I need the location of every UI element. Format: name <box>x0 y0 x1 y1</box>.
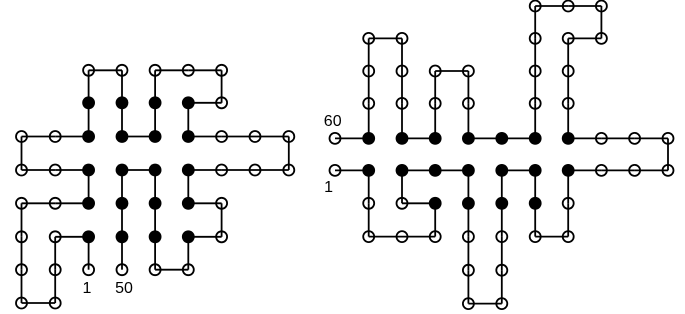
wire R44-R45 <box>502 137 535 139</box>
node L27 P (open) <box>216 65 227 76</box>
node L13 P (open) <box>50 165 61 176</box>
wire R48-R49 <box>435 70 468 72</box>
node R20 H (filled) <box>495 164 508 177</box>
wire L29-L30 <box>187 103 189 137</box>
node L33 P (open) <box>283 131 294 142</box>
wire R14-R15 <box>467 270 469 303</box>
wire L33-L34 <box>288 137 290 171</box>
node L31 P (open) <box>216 131 227 142</box>
wire R20-R21 <box>502 169 535 171</box>
wire L43-L44 <box>154 237 156 270</box>
node L2 H (filled) <box>82 230 95 243</box>
node R29 P (open) <box>663 165 674 176</box>
node R59 H (filled) <box>362 132 375 145</box>
node R3 P (open) <box>363 198 374 209</box>
node L26 P (open) <box>183 65 194 76</box>
wire L49-L50 <box>121 237 123 270</box>
wire L12-L13 <box>55 169 88 171</box>
wire R47-R48 <box>467 71 469 103</box>
wire L22-L23 <box>122 136 155 138</box>
node L29 H (filled) <box>182 96 195 109</box>
node L34 P (open) <box>283 165 294 176</box>
wire L24-L25 <box>154 70 156 103</box>
node L15 P (open) <box>16 131 27 142</box>
wire L36-L37 <box>188 169 221 171</box>
wire R50-R51 <box>434 103 436 138</box>
wire R4-R5 <box>369 236 402 238</box>
node L12 H (filled) <box>82 164 95 177</box>
node R18 P (open) <box>496 231 507 242</box>
wire R29-R30 <box>667 138 669 170</box>
wire L14-L15 <box>21 137 23 171</box>
node R14 P (open) <box>463 265 474 276</box>
wire R39-R40 <box>535 5 568 7</box>
node R36 P (open) <box>563 33 574 44</box>
node L19 P (open) <box>83 65 94 76</box>
node L20 P (open) <box>117 65 128 76</box>
wire L21-L22 <box>121 103 123 137</box>
wire R46-R47 <box>467 103 469 138</box>
node R51 H (filled) <box>429 132 442 145</box>
node R33 H (filled) <box>562 132 575 145</box>
wire L5-L6 <box>22 302 56 304</box>
wire L48-L49 <box>121 203 123 237</box>
wire R19-R20 <box>501 170 503 203</box>
node R31 P (open) <box>629 133 640 144</box>
node R9 H (filled) <box>396 164 409 177</box>
wire L15-L16 <box>22 136 56 138</box>
wire R55-R56 <box>369 37 402 39</box>
wire R33-R34 <box>567 103 569 138</box>
node L24 H (filled) <box>149 96 162 109</box>
wire R11-R12 <box>467 170 469 203</box>
node R35 P (open) <box>563 66 574 77</box>
wire L46-L47 <box>122 169 155 171</box>
node R11 H (filled) <box>462 164 475 177</box>
wire R42-R43 <box>534 71 536 103</box>
wire L7-L8 <box>21 237 23 270</box>
wire L3-L4 <box>54 237 56 270</box>
node L5 P (open) <box>50 298 61 309</box>
wire L20-L21 <box>121 70 123 103</box>
wire R25-R26 <box>567 170 569 203</box>
node R7 H (filled) <box>429 197 442 210</box>
wire R6-R7 <box>434 203 436 236</box>
node R43 P (open) <box>530 98 541 109</box>
node R27 P (open) <box>596 165 607 176</box>
wire L10-L11 <box>55 202 88 204</box>
wire L38-L39 <box>188 202 221 204</box>
node L50 P (open) <box>117 264 128 275</box>
wire L1-L2 <box>88 237 90 270</box>
svg-text:60: 60 <box>324 113 342 130</box>
node L30 H (filled) <box>182 130 195 143</box>
node R50 P (open) <box>430 98 441 109</box>
wire R54-R55 <box>401 38 403 71</box>
wire R32-R33 <box>568 137 601 139</box>
wire L11-L12 <box>88 170 90 203</box>
wire R49-R50 <box>434 71 436 103</box>
wire L18-L19 <box>88 70 90 103</box>
node R6 P (open) <box>430 231 441 242</box>
wire R51-R52 <box>402 137 435 139</box>
node L35 P (open) <box>250 165 261 176</box>
node R55 P (open) <box>397 33 408 44</box>
node R45 H (filled) <box>495 132 508 145</box>
node L48 H (filled) <box>116 197 129 210</box>
wire L34-L35 <box>255 169 289 171</box>
node L28 P (open) <box>216 97 227 108</box>
wire L25-L26 <box>155 69 188 71</box>
node R52 H (filled) <box>396 132 409 145</box>
wire R8-R9 <box>401 170 403 203</box>
node L4 P (open) <box>50 264 61 275</box>
wire L9-L10 <box>22 202 56 204</box>
node R41 P (open) <box>530 33 541 44</box>
wire R56-R57 <box>368 38 370 71</box>
node R15 P (open) <box>463 298 474 309</box>
wire L6-L7 <box>21 270 23 303</box>
svg-text:50: 50 <box>115 280 133 297</box>
wire L16-L17 <box>55 136 88 138</box>
wire L32-L33 <box>255 136 289 138</box>
wire R35-R36 <box>567 38 569 71</box>
wire R38-R39 <box>568 5 601 7</box>
node L36 P (open) <box>216 165 227 176</box>
wire L27-L28 <box>221 70 223 103</box>
node R26 H (filled) <box>562 164 575 177</box>
node R44 H (filled) <box>529 132 542 145</box>
wire R21-R22 <box>534 170 536 203</box>
node R8 P (open) <box>397 198 408 209</box>
node R60 P (open) <box>330 133 341 144</box>
node L42 P (open) <box>183 264 194 275</box>
wire R3-R4 <box>368 203 370 236</box>
node L14 P (open) <box>16 165 27 176</box>
node L41 H (filled) <box>182 230 195 243</box>
node R37 P (open) <box>596 33 607 44</box>
wire L35-L36 <box>222 169 255 171</box>
wire L40-L41 <box>188 236 221 238</box>
node L10 P (open) <box>50 198 61 209</box>
node L7 P (open) <box>16 264 27 275</box>
wire R45-R46 <box>468 137 501 139</box>
node R12 H (filled) <box>462 197 475 210</box>
wire R5-R6 <box>402 236 435 238</box>
node L23 H (filled) <box>149 130 162 143</box>
wire L45-L46 <box>154 170 156 203</box>
node R46 H (filled) <box>462 132 475 145</box>
node R21 H (filled) <box>529 164 542 177</box>
wire R36-R37 <box>568 37 601 39</box>
wire R13-R14 <box>467 237 469 271</box>
node R53 P (open) <box>397 98 408 109</box>
node R42 P (open) <box>530 66 541 77</box>
node R38 P (open) <box>596 1 607 12</box>
node L39 P (open) <box>216 198 227 209</box>
node R23 P (open) <box>530 231 541 242</box>
node R16 P (open) <box>496 298 507 309</box>
node L8 P (open) <box>16 231 27 242</box>
node L16 P (open) <box>50 131 61 142</box>
node L37 H (filled) <box>182 164 195 177</box>
wire R10-R11 <box>435 169 468 171</box>
node R39 P (open) <box>563 1 574 12</box>
node L32 P (open) <box>250 131 261 142</box>
wire R57-R58 <box>368 71 370 103</box>
node L45 H (filled) <box>149 197 162 210</box>
wire L44-L45 <box>154 203 156 237</box>
wire R37-R38 <box>600 6 602 38</box>
node R25 P (open) <box>563 198 574 209</box>
node R48 P (open) <box>463 66 474 77</box>
wire R26-R27 <box>568 169 601 171</box>
node L47 H (filled) <box>116 164 129 177</box>
wire R17-R18 <box>501 237 503 271</box>
svg-text:1: 1 <box>82 280 91 297</box>
node L3 P (open) <box>50 231 61 242</box>
node L9 P (open) <box>16 198 27 209</box>
node L40 P (open) <box>216 231 227 242</box>
node L38 H (filled) <box>182 197 195 210</box>
wire R15-R16 <box>468 303 501 305</box>
wire L4-L5 <box>54 270 56 303</box>
wire R23-R24 <box>535 236 568 238</box>
node R28 P (open) <box>629 165 640 176</box>
wire L13-L14 <box>22 169 56 171</box>
wire R2-R3 <box>368 170 370 203</box>
wire R16-R17 <box>501 270 503 303</box>
wire L2-L3 <box>55 236 88 238</box>
node R34 P (open) <box>563 98 574 109</box>
node L46 H (filled) <box>149 164 162 177</box>
wire R22-R23 <box>534 203 536 236</box>
wire L31-L32 <box>222 136 255 138</box>
node L22 H (filled) <box>116 130 129 143</box>
node L25 P (open) <box>150 65 161 76</box>
wire R53-R54 <box>401 71 403 103</box>
node L43 P (open) <box>150 264 161 275</box>
wire L26-L27 <box>188 69 221 71</box>
node R30 P (open) <box>663 133 674 144</box>
node L21 H (filled) <box>116 96 129 109</box>
node R10 H (filled) <box>429 164 442 177</box>
wire R1-R2 <box>335 169 369 171</box>
node R22 H (filled) <box>529 197 542 210</box>
node R56 P (open) <box>363 33 374 44</box>
node R13 P (open) <box>463 231 474 242</box>
node L6 P (open) <box>16 298 27 309</box>
wire L37-L38 <box>187 170 189 203</box>
node L44 H (filled) <box>149 230 162 243</box>
wire L41-L42 <box>187 237 189 270</box>
wire L30-L31 <box>188 136 221 138</box>
wire R7-R8 <box>402 202 435 204</box>
node R19 H (filled) <box>495 197 508 210</box>
node L49 H (filled) <box>116 230 129 243</box>
wire R52-R53 <box>401 103 403 138</box>
wire R41-R42 <box>534 38 536 71</box>
node R58 P (open) <box>363 98 374 109</box>
wire R59-R60 <box>335 137 369 139</box>
wire L8-L9 <box>21 203 23 237</box>
wire R58-R59 <box>368 103 370 138</box>
wire R30-R31 <box>635 137 668 139</box>
node L18 H (filled) <box>82 96 95 109</box>
node R40 P (open) <box>530 1 541 12</box>
node R57 P (open) <box>363 66 374 77</box>
wire L42-L43 <box>155 269 188 271</box>
wire R34-R35 <box>567 71 569 103</box>
wire R12-R13 <box>467 203 469 236</box>
wire L23-L24 <box>154 103 156 137</box>
wire R9-R10 <box>402 169 435 171</box>
wire L47-L48 <box>121 170 123 203</box>
node R24 P (open) <box>563 231 574 242</box>
node R4 P (open) <box>363 231 374 242</box>
node R17 P (open) <box>496 265 507 276</box>
node L1 P (open) <box>83 264 94 275</box>
node L17 H (filled) <box>82 130 95 143</box>
node R2 H (filled) <box>362 164 375 177</box>
wire R43-R44 <box>534 103 536 138</box>
wire R18-R19 <box>501 203 503 236</box>
wire L28-L29 <box>188 102 221 104</box>
svg-text:1: 1 <box>324 179 333 196</box>
node R1 P (open) <box>330 165 341 176</box>
node R32 P (open) <box>596 133 607 144</box>
node L11 H (filled) <box>82 197 95 210</box>
node R47 P (open) <box>463 98 474 109</box>
wire R27-R28 <box>601 169 634 171</box>
wire L19-L20 <box>89 69 122 71</box>
node R49 P (open) <box>430 66 441 77</box>
wire L17-L18 <box>88 103 90 137</box>
wire R24-R25 <box>567 203 569 236</box>
wire R28-R29 <box>635 169 668 171</box>
node R54 P (open) <box>397 66 408 77</box>
wire R40-R41 <box>534 6 536 38</box>
wire L39-L40 <box>221 203 223 237</box>
node R5 P (open) <box>397 231 408 242</box>
wire R31-R32 <box>601 137 634 139</box>
